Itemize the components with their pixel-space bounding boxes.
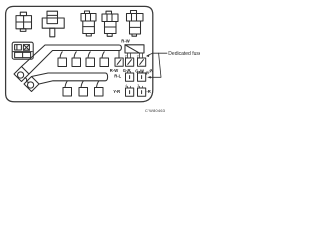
relay K3 bbox=[125, 45, 144, 53]
relay K3 pins bbox=[128, 53, 143, 58]
fuse F6 bbox=[86, 52, 95, 67]
dedicated fuse FD1 bbox=[115, 51, 123, 67]
fuse F5 bbox=[72, 52, 81, 67]
dedicated fuse FD3 bbox=[138, 58, 146, 66]
svg-text:R-L: R-L bbox=[114, 74, 121, 79]
svg-text:3: 3 bbox=[137, 84, 139, 88]
relay socket K2 bbox=[42, 11, 64, 37]
fuse FD4 bbox=[126, 71, 134, 81]
bolt fuse F2 bbox=[102, 11, 118, 36]
arrowhead 1 bbox=[146, 55, 150, 57]
dedicated fuse FD2 bbox=[126, 58, 134, 66]
arrowhead 2 bbox=[147, 76, 151, 78]
connector block X1 bbox=[12, 42, 33, 59]
fuse box outline bbox=[6, 6, 153, 101]
svg-text:R-W: R-W bbox=[110, 68, 118, 73]
harness band A with bus bar 1 bbox=[22, 45, 122, 74]
fuse FD5 bbox=[138, 71, 146, 81]
callout branch wire bbox=[150, 53, 162, 77]
bolt fuse F1 bbox=[81, 11, 96, 36]
svg-text:Y-R: Y-R bbox=[113, 89, 120, 94]
relay socket K1 bbox=[16, 12, 32, 31]
fuse FD7 bbox=[138, 86, 146, 96]
bolt fuse F3 bbox=[127, 11, 144, 37]
svg-text:R-W: R-W bbox=[121, 39, 129, 44]
jumper wire between caps bbox=[25, 78, 29, 82]
fuse F4 bbox=[58, 52, 67, 67]
svg-text:4: 4 bbox=[125, 84, 127, 88]
fuse FD6 bbox=[126, 86, 134, 96]
svg-text:C’W80463: C’W80463 bbox=[145, 108, 165, 113]
svg-text:G-R: G-R bbox=[123, 68, 131, 73]
svg-text:G-W: G-W bbox=[135, 69, 144, 74]
fuse F7 bbox=[100, 52, 109, 67]
fuse F8 bbox=[63, 81, 72, 96]
callout leader to relay pins bbox=[148, 53, 168, 55]
fuse F10 bbox=[95, 81, 104, 96]
connector cap A bbox=[14, 67, 29, 82]
connector cap B bbox=[24, 77, 39, 92]
fuse F9 bbox=[79, 81, 88, 96]
svg-text:Dedicated fuse: Dedicated fuse bbox=[168, 51, 200, 57]
harness band B with bus bar 2 bbox=[32, 73, 108, 84]
svg-text:W-R: W-R bbox=[144, 68, 153, 76]
svg-text:-R: -R bbox=[146, 89, 150, 94]
